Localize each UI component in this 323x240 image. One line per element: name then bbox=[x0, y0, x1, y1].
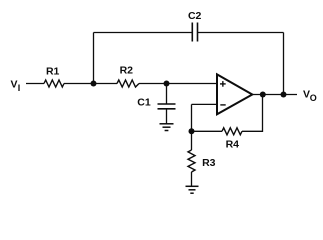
op-amp minus pin mark bbox=[220, 104, 225, 106]
node B junction bbox=[164, 81, 170, 87]
capacitor C2 bbox=[192, 23, 197, 42]
ground below R3 bbox=[186, 186, 199, 193]
wire node C down to R3 bbox=[191, 131, 193, 150]
wire node C to R4 bbox=[192, 130, 223, 132]
svg-text:R4: R4 bbox=[226, 139, 240, 151]
wire node B down to C1 bbox=[166, 84, 168, 105]
node E junction output/C2 bbox=[281, 92, 287, 98]
resistor R4 bbox=[222, 128, 242, 135]
svg-text:R2: R2 bbox=[120, 65, 134, 77]
op-amp plus pin mark bbox=[220, 81, 226, 87]
output node VO bbox=[303, 89, 317, 104]
input node VI bbox=[11, 79, 21, 93]
svg-text:I: I bbox=[18, 83, 21, 93]
wire C2 to feedback corner bbox=[198, 32, 284, 34]
wire R3 to ground bbox=[191, 172, 193, 186]
svg-text:C1: C1 bbox=[137, 97, 151, 109]
svg-text:R1: R1 bbox=[46, 66, 60, 78]
wire VI to R1 bbox=[26, 83, 44, 85]
wire minus input down to node C bbox=[191, 104, 193, 131]
node A junction bbox=[91, 81, 97, 87]
wire op-amp output bbox=[252, 94, 297, 96]
resistor R1 bbox=[44, 80, 64, 87]
svg-text:V: V bbox=[11, 79, 18, 91]
op-amp U1 bbox=[217, 74, 252, 114]
svg-text:O: O bbox=[310, 93, 317, 103]
resistor R3 bbox=[188, 150, 195, 172]
wire feedback down to output bbox=[283, 33, 285, 95]
wire C1 to ground bbox=[166, 109, 168, 124]
capacitor C1 bbox=[158, 104, 176, 109]
resistor R2 bbox=[117, 80, 139, 87]
wire node A up to top rail bbox=[93, 33, 95, 84]
node D junction output/R4 bbox=[260, 92, 266, 98]
wire R4 to output bbox=[242, 95, 263, 132]
node C junction bbox=[189, 128, 195, 134]
wire R2 to op-amp plus input bbox=[139, 83, 217, 85]
wire minus input bbox=[192, 103, 218, 105]
wire top rail to C2 bbox=[94, 32, 193, 34]
svg-text:R3: R3 bbox=[202, 157, 216, 169]
svg-text:C2: C2 bbox=[188, 10, 202, 22]
ground below C1 bbox=[160, 124, 174, 131]
wire R1 to R2 bbox=[64, 83, 117, 85]
